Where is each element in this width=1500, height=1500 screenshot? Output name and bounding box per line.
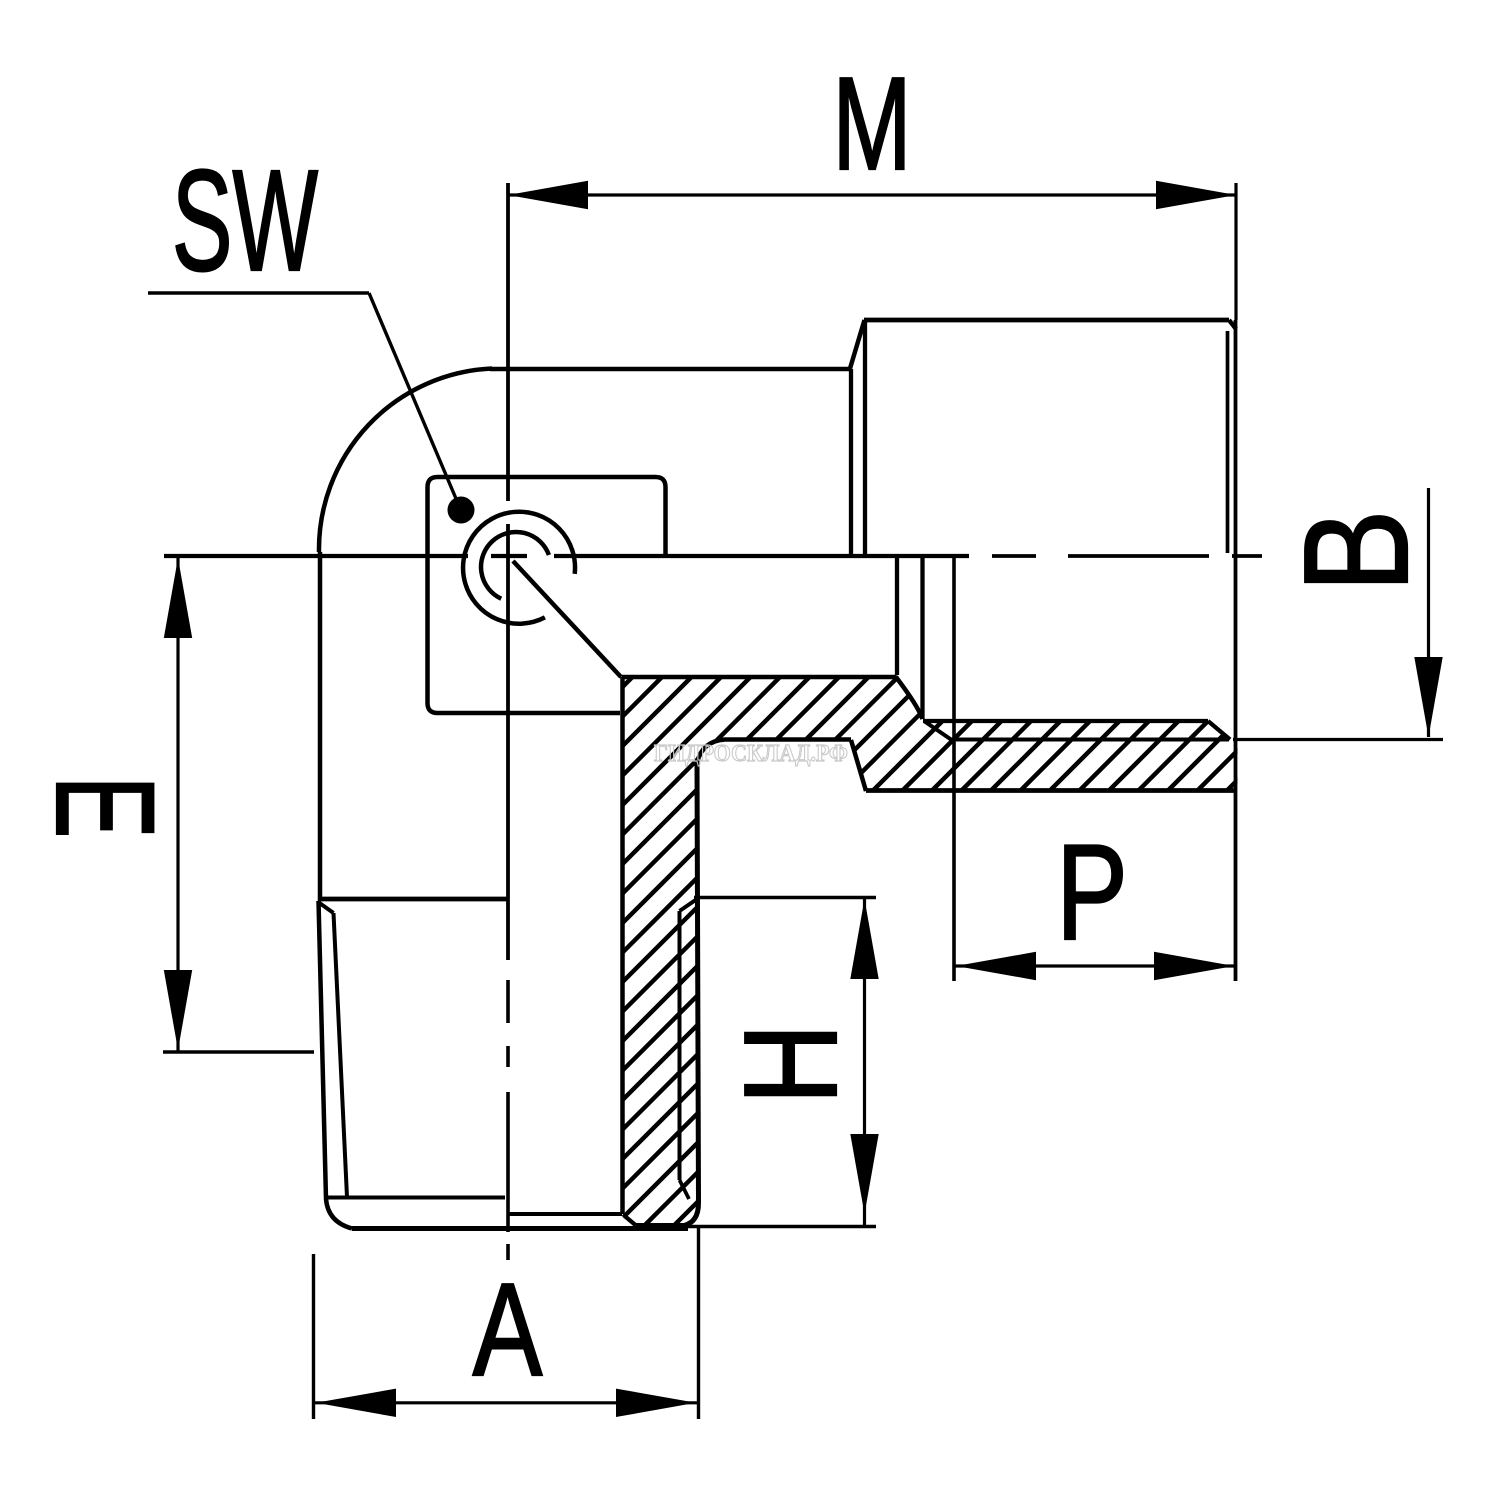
dimension H line <box>863 897 866 1227</box>
bore opening inner arc <box>481 532 549 599</box>
label E (rotated) <box>26 776 182 839</box>
body underside edge <box>622 675 896 680</box>
dimension E bottom arrowhead <box>164 970 192 1050</box>
right thread start chamfer (section) <box>680 899 698 911</box>
SW flange square <box>428 477 666 713</box>
section end chamfer <box>624 1215 637 1226</box>
dimension B line <box>1427 488 1430 737</box>
svg-text:E: E <box>26 776 182 839</box>
bottom port right outer wall (section) <box>636 763 699 1226</box>
svg-text:B: B <box>1273 510 1439 593</box>
svg-text:SW: SW <box>172 140 318 302</box>
bottom port left outer line <box>319 901 353 1229</box>
thread runout chamfer <box>924 721 951 740</box>
dimension H bottom reference line <box>688 1225 876 1228</box>
dimension P right arrowhead <box>1154 952 1234 980</box>
right port end face / P right extension line <box>1234 320 1238 981</box>
horizontal centerline / top-face edge line <box>164 554 1262 558</box>
label A <box>473 1256 543 1404</box>
right port bore line (lower) <box>923 719 1208 723</box>
left thread start chamfer <box>320 903 334 913</box>
right port end chamfer inner line <box>1226 331 1230 553</box>
bottom port shoulder edge <box>318 897 507 902</box>
thread start face line <box>920 558 924 719</box>
right port face line upper <box>863 322 867 554</box>
dimension M line <box>508 193 1236 196</box>
svg-text:M: M <box>832 51 911 198</box>
watermark <box>654 741 848 767</box>
bottom chamfer ring edge <box>326 1196 505 1200</box>
label B (rotated) <box>1273 510 1439 593</box>
svg-text:H: H <box>716 1023 864 1104</box>
right port left step line upper <box>849 369 853 554</box>
dimension B arrowhead <box>1414 657 1442 737</box>
dimension P left arrowhead <box>956 952 1036 980</box>
svg-text:ГИДРОСКЛАД.РФ: ГИДРОСКЛАД.РФ <box>654 741 848 767</box>
SW leader underline <box>148 291 369 294</box>
corner edge diagonal from bore to inner corner <box>513 561 621 677</box>
dimension E line <box>176 556 179 1052</box>
dimension B reference line <box>1233 738 1443 741</box>
section hatching of elbow body (L-shaped cut) <box>30 580 1467 1250</box>
bottom port left thread root line <box>334 913 348 1197</box>
body left wall <box>318 552 323 901</box>
label SW <box>172 140 318 302</box>
dimension H top arrowhead <box>850 899 878 979</box>
bottom port bottom edge <box>352 1226 688 1231</box>
inner corner fillet <box>896 677 923 719</box>
dimension M right arrowhead <box>1156 181 1236 209</box>
port entry chamfer <box>1208 721 1230 740</box>
body top edge <box>490 367 851 372</box>
relief step chamfer <box>851 740 866 791</box>
vertical centerline of bottom port / M extension line <box>506 183 510 1260</box>
right thread root line (section) <box>678 911 682 1180</box>
counterbore step line <box>895 558 899 675</box>
svg-text:P: P <box>1056 816 1128 968</box>
label P <box>1056 816 1128 968</box>
body quarter-round outline arc <box>319 369 492 553</box>
dimension A right arrowhead <box>616 1389 696 1417</box>
svg-text:A: A <box>473 1256 543 1404</box>
dimension P left extension line <box>952 556 956 981</box>
dimension E bottom reference line <box>163 1050 314 1053</box>
relief groove surface line with fillet <box>697 740 851 764</box>
dimension A right extension line <box>697 1228 700 1419</box>
SW leader diagonal <box>369 293 457 501</box>
label H (rotated) <box>716 1023 864 1104</box>
dimension M right extension line <box>1234 183 1237 320</box>
right port thread root line <box>951 738 1229 742</box>
dimension A line <box>315 1401 697 1404</box>
dimension P line <box>955 964 1235 967</box>
dimension A left extension line <box>312 1254 315 1419</box>
right thread end chamfer (section) <box>680 1180 690 1199</box>
bore end inner edge <box>509 1212 622 1216</box>
right port top-right chamfer <box>1229 320 1236 329</box>
right port bottom outline <box>866 788 1235 793</box>
bottom port bore wall (section) <box>620 677 625 1214</box>
bore opening outer arc <box>463 512 575 624</box>
dimension E top arrowhead <box>164 558 192 638</box>
dimension H top reference line <box>694 896 876 899</box>
dimension A left arrowhead <box>316 1389 396 1417</box>
right port top-left chamfer <box>850 320 865 369</box>
SW leader dot <box>448 497 475 524</box>
dimension M left arrowhead <box>508 181 588 209</box>
dimension H bottom arrowhead <box>850 1134 878 1214</box>
label M <box>832 51 911 198</box>
right port top outline <box>864 318 1229 323</box>
